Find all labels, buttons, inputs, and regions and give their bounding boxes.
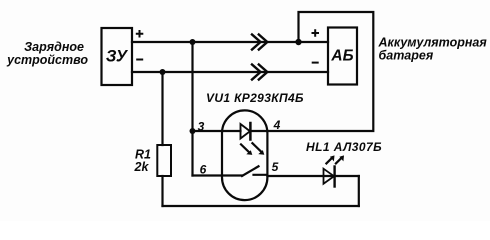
wire plus rail ZU to AB <box>132 41 328 43</box>
LED HL1 emission arrows <box>326 155 344 163</box>
svg-text:6: 6 <box>200 163 207 177</box>
junction plus rail / pins 3-6 branch <box>190 39 196 45</box>
charger unit ZU box <box>102 28 133 85</box>
label - at battery <box>313 62 318 64</box>
optorelay VU1 body (stadium outline) <box>222 110 267 200</box>
svg-text:HL1 АЛ307Б: HL1 АЛ307Б <box>306 140 382 154</box>
wire pin 5 to HL1 and corner <box>267 175 358 177</box>
wire HL1 down to bottom rail <box>358 176 360 206</box>
label - at charger output <box>137 59 142 61</box>
junction pin 3 <box>190 128 196 134</box>
svg-text:2k: 2k <box>134 160 150 174</box>
wire to pin 6 <box>193 174 223 176</box>
svg-text:5: 5 <box>272 160 279 174</box>
label + at battery <box>313 30 319 35</box>
label + at charger output <box>137 31 143 37</box>
LED HL1 <box>324 167 335 187</box>
svg-text:Аккумуляторная: Аккумуляторная <box>378 36 488 50</box>
junction plus rail / pin 4 loop <box>295 39 301 45</box>
label battery "Аккумуляторная батарея" <box>378 36 488 63</box>
connector chevrons on plus wire <box>252 35 267 50</box>
svg-text:АБ: АБ <box>330 48 353 65</box>
optorelay VU1 light arrows <box>241 143 264 155</box>
label R1 value <box>134 148 152 174</box>
label charger "Зарядное устройство" <box>6 40 88 67</box>
svg-text:батарея: батарея <box>379 49 434 63</box>
wire to pin 3 <box>193 130 223 132</box>
wire loop plus rail over battery to pin 4 <box>267 12 373 131</box>
svg-text:VU1 КР293КП4Б: VU1 КР293КП4Б <box>206 91 304 105</box>
wire minus rail ZU to AB <box>132 71 328 73</box>
svg-text:устройство: устройство <box>6 53 88 67</box>
connector chevrons on minus wire <box>252 65 267 80</box>
svg-text:3: 3 <box>198 120 205 134</box>
optorelay VU1 switch contact <box>222 166 267 176</box>
battery AB box <box>328 28 357 85</box>
svg-text:ЗУ: ЗУ <box>106 48 129 66</box>
junction minus rail / R1 branch <box>160 69 166 75</box>
wire plus branch down to pin 3 and pin 6 <box>191 42 193 176</box>
resistor R1 <box>157 72 171 206</box>
svg-text:Зарядное: Зарядное <box>24 40 84 54</box>
optorelay VU1 internal LED <box>222 123 267 140</box>
wire bottom rail <box>163 205 359 207</box>
svg-text:4: 4 <box>273 118 281 132</box>
